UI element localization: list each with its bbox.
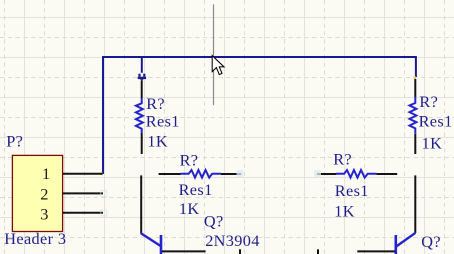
svg-text:1K: 1K: [179, 199, 200, 218]
wire main run pin1 to R2: [103, 57, 416, 174]
svg-text:1K: 1K: [334, 202, 355, 221]
node pin3 end marker: [101, 210, 107, 216]
svg-text:Q?: Q?: [421, 232, 441, 251]
wire stub bottom right: [317, 249, 319, 254]
svg-text:R?: R?: [333, 149, 352, 168]
guide line: [213, 4, 215, 105]
transistor Q1: [141, 175, 206, 254]
svg-text:1K: 1K: [422, 133, 443, 152]
resistor R3: [159, 170, 242, 178]
cursor: [212, 56, 224, 75]
svg-text:2N3904: 2N3904: [205, 231, 260, 250]
resistor R1: [136, 81, 143, 154]
svg-text:Res1: Res1: [335, 181, 369, 200]
svg-text:R?: R?: [180, 150, 199, 169]
svg-text:2: 2: [40, 185, 49, 204]
svg-text:Res1: Res1: [146, 111, 180, 130]
pin 2: [63, 192, 103, 194]
svg-text:3: 3: [40, 204, 49, 223]
svg-text:R?: R?: [146, 94, 165, 113]
transistor Q2: [357, 175, 415, 254]
node yellow dot at R2 top: [414, 76, 416, 79]
svg-text:Header 3: Header 3: [4, 229, 66, 248]
svg-text:P?: P?: [6, 132, 23, 151]
resistor R2: [410, 79, 417, 154]
resistor R4: [317, 170, 397, 178]
node yellow dot at pin1: [100, 173, 102, 176]
svg-text:R?: R?: [419, 92, 438, 111]
node pin2 end marker: [101, 191, 107, 197]
connector P1: [12, 155, 62, 231]
pin 3: [63, 212, 103, 214]
node faint pad at R3 right: [237, 170, 244, 177]
wire stub to R1: [141, 57, 143, 73]
wire stub bottom left: [239, 249, 241, 254]
svg-text:Res1: Res1: [419, 112, 453, 131]
node faint pad at R4 left: [314, 170, 321, 177]
node marker at R1 top: [138, 74, 146, 82]
svg-text:Q?: Q?: [204, 212, 224, 231]
svg-text:Res1: Res1: [179, 180, 213, 199]
pin 1: [63, 173, 103, 175]
svg-text:1: 1: [42, 164, 51, 183]
svg-text:1K: 1K: [147, 132, 168, 151]
